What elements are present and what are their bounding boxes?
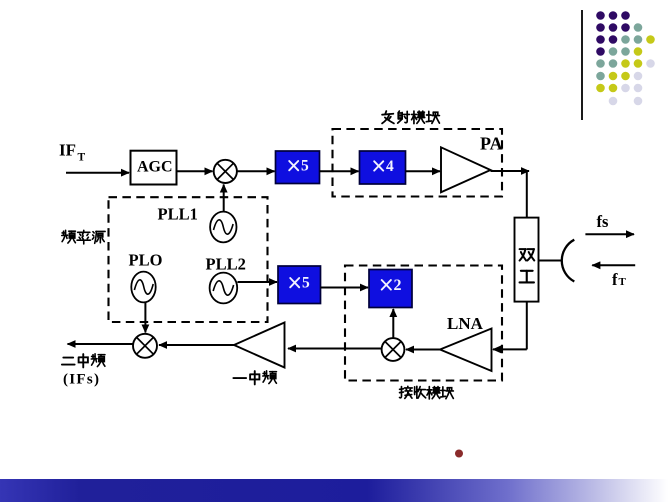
wire IFT input arrow xyxy=(66,172,129,174)
svg-text:fs: fs xyxy=(597,212,609,231)
amplifier first-IF triangle xyxy=(234,323,285,368)
receive module dashed box xyxy=(345,266,502,381)
decorative vertical line top right xyxy=(581,10,583,120)
svg-text:LNA: LNA xyxy=(447,314,484,333)
wire M1 to X5a xyxy=(237,170,275,172)
wire M3 up to X2 xyxy=(392,309,394,338)
mixer M1 xyxy=(214,160,237,183)
wire PLO down to M2 xyxy=(144,303,146,333)
svg-text:PLO: PLO xyxy=(129,251,163,270)
decorative dot grid xyxy=(596,11,655,105)
svg-text:T: T xyxy=(78,152,86,164)
amplifier LNA triangle xyxy=(440,329,492,372)
oscillator PLO xyxy=(131,272,155,303)
svg-text:5: 5 xyxy=(302,275,310,292)
wire second IF output arrow xyxy=(68,343,134,345)
svg-text:AGC: AGC xyxy=(137,159,173,176)
oscillator PLL2 xyxy=(210,273,238,304)
wire AGC to mixer M1 xyxy=(177,170,213,172)
amplifier PA triangle xyxy=(441,147,491,192)
svg-text:PA: PA xyxy=(480,134,503,154)
wire IF amp to mixer M2 xyxy=(159,344,234,346)
label fT xyxy=(612,270,627,289)
wire PLL2 to X5b xyxy=(238,281,278,283)
label frequency source (pin lv yuan) xyxy=(62,230,105,244)
multiplier X5b xyxy=(278,266,321,304)
wire fT arrow xyxy=(592,264,635,266)
wire PLL1 to M1 arrow up xyxy=(223,185,225,212)
wire M3 to IF amp xyxy=(288,348,382,350)
wire X4 to PA amp xyxy=(406,170,441,172)
svg-text:5: 5 xyxy=(301,158,309,175)
label second IF (er zhong pin) xyxy=(62,354,105,368)
oscillator PLL1 xyxy=(210,212,236,243)
wire X5b to X2 xyxy=(321,287,369,289)
wire LNA to mixer M3 xyxy=(406,349,440,351)
svg-text:T: T xyxy=(619,276,627,288)
multiplier X2 xyxy=(369,270,412,308)
svg-text:PLL1: PLL1 xyxy=(158,204,198,223)
mixer M3 xyxy=(382,338,405,361)
wire duplexer to antenna xyxy=(539,260,562,262)
svg-text:f: f xyxy=(612,270,618,289)
bottom gradient bar xyxy=(0,479,668,502)
label receive module (jie shou mo kuai) xyxy=(400,386,454,399)
node IFT label xyxy=(59,141,86,164)
multiplier X5a xyxy=(276,151,320,184)
wire PA output to duplexer xyxy=(491,170,530,172)
label transmit module (fa she mo kuai) xyxy=(382,111,439,124)
small maroon bullet xyxy=(455,450,463,458)
svg-text:4: 4 xyxy=(386,158,394,175)
wire X5a to X4 xyxy=(320,170,359,172)
svg-text:2: 2 xyxy=(394,277,402,294)
svg-text:(IFs): (IFs) xyxy=(63,372,100,388)
svg-text:IF: IF xyxy=(59,141,76,160)
frequency source dashed box xyxy=(109,197,268,322)
mixer M2 xyxy=(133,334,157,358)
wire duplexer down to LNA xyxy=(526,302,528,350)
multiplier X4 xyxy=(360,151,406,184)
antenna arc xyxy=(562,240,575,282)
transmit module dashed box xyxy=(333,129,503,197)
wire fs arrow xyxy=(585,233,634,235)
svg-text:PLL2: PLL2 xyxy=(206,254,246,273)
label first IF (yi zhong pin) xyxy=(233,371,276,385)
duplexer box xyxy=(515,218,539,302)
AGC block xyxy=(131,151,177,185)
